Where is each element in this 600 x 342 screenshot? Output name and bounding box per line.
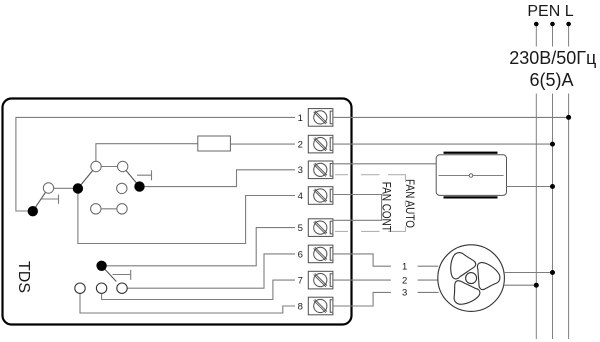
svg-text:3: 3: [402, 288, 407, 299]
junction dot t1-L: [566, 115, 571, 120]
terminal 8 block: [308, 297, 333, 315]
svg-text:FAN CONT: FAN CONT: [380, 182, 394, 233]
svg-text:TDS: TDS: [15, 261, 32, 293]
wire B to B2: [101, 166, 118, 168]
wire terminal8 internal to contact F1: [80, 293, 295, 313]
wire actuator to N: [507, 186, 553, 188]
contact H: [43, 183, 53, 193]
supply terminal dots PE N L: [534, 22, 571, 27]
spare contact pair left: [91, 204, 101, 214]
terminal 2 block: [308, 135, 333, 153]
switch pole A (filled): [28, 206, 38, 216]
svg-text:PEN L: PEN L: [527, 3, 573, 20]
contact F3: [117, 283, 127, 293]
switch pole C (filled): [134, 181, 144, 191]
contact B2: [118, 161, 128, 171]
wire terminal4 internal to pole D: [78, 194, 295, 244]
wire terminal3 internal to pole C: [145, 170, 295, 187]
wire terminal1 to L: [333, 116, 569, 118]
wire terminal6 internal to contact F3: [127, 254, 295, 288]
lever end stop for A: [41, 195, 59, 204]
terminal 4 block: [308, 187, 333, 205]
wire terminal7 to fan tap2: [333, 279, 391, 281]
fan blades: [441, 246, 501, 313]
switch lever C to B2: [126, 170, 140, 186]
spare contact pair right: [117, 204, 127, 214]
resistor R1: [198, 136, 231, 151]
svg-text:8: 8: [298, 301, 303, 312]
contact G: [117, 183, 127, 193]
actuator bottom plate: [444, 196, 498, 198]
svg-text:7: 7: [298, 276, 303, 287]
svg-text:2: 2: [402, 275, 407, 286]
wire stub tap1 to fan: [418, 265, 439, 267]
contact B: [91, 161, 101, 171]
terminal 7 block: [308, 271, 333, 289]
fan hub: [466, 273, 477, 284]
lever end stop for E: [113, 270, 131, 280]
fan speed pole E (filled): [96, 261, 106, 271]
wire terminal7 internal to contact F2: [102, 280, 295, 299]
svg-text:6: 6: [298, 249, 303, 260]
svg-text:230В/50Гц: 230В/50Гц: [509, 48, 596, 68]
actuator top plate: [444, 152, 498, 154]
wire terminal8 to fan tap3: [333, 292, 391, 306]
switch lever A to H: [33, 192, 46, 211]
switch lever D to B: [78, 170, 93, 188]
junction dot actuator-N: [550, 184, 555, 189]
terminal 1 block: [308, 109, 333, 127]
wire jumper terminal4 to terminal5 (fan cont): [333, 195, 382, 221]
svg-text:4: 4: [298, 191, 303, 202]
actuator shaft line: [439, 175, 504, 177]
wire terminal1 internal to switch pole A: [16, 117, 295, 211]
contact F1: [75, 283, 85, 293]
svg-text:1: 1: [298, 113, 303, 124]
actuator box U1: [436, 155, 506, 196]
lever end stop for C: [137, 170, 152, 180]
junction dot fan-PE: [534, 283, 539, 288]
contact F2: [96, 283, 106, 293]
wire fan to N: [504, 272, 553, 274]
node L supply line: [568, 24, 570, 339]
terminal 3 block: [308, 161, 333, 179]
fan M1 outer circle: [438, 245, 505, 312]
terminal 6 block: [308, 245, 333, 263]
switch pole D (filled): [73, 183, 83, 193]
wire terminal2 internal to resistor and contact B: [96, 144, 295, 162]
wire stub tap2 to fan: [418, 279, 438, 281]
wire terminal2 to N: [333, 143, 553, 145]
actuator shaft pivot: [469, 174, 473, 178]
svg-text:3: 3: [298, 165, 303, 176]
svg-text:FAN AUTO: FAN AUTO: [403, 179, 417, 228]
svg-text:6(5)А: 6(5)А: [529, 70, 573, 90]
svg-text:1: 1: [402, 262, 407, 273]
junction dot t2-N: [550, 142, 555, 147]
wire H to D: [53, 187, 72, 189]
fan speed switch lever E to F3: [102, 266, 117, 282]
svg-text:5: 5: [298, 223, 303, 234]
wire fan to PE: [504, 284, 537, 286]
TDS controller box: [3, 99, 352, 325]
terminal 5 block: [308, 219, 333, 237]
node PE supply line: [535, 24, 537, 339]
svg-text:2: 2: [298, 140, 303, 151]
wire terminal3 to actuator: [333, 163, 436, 165]
junction dot fan-N: [550, 270, 555, 275]
wire terminal5 internal to pole E: [107, 228, 295, 266]
wire between spare contacts: [101, 208, 117, 210]
node N supply line: [552, 24, 554, 339]
dashed bracket terminal3 to terminal5 (fan auto): [335, 175, 405, 232]
wire stub tap3 to fan: [418, 291, 439, 293]
wire terminal6 to fan tap1: [333, 254, 391, 266]
